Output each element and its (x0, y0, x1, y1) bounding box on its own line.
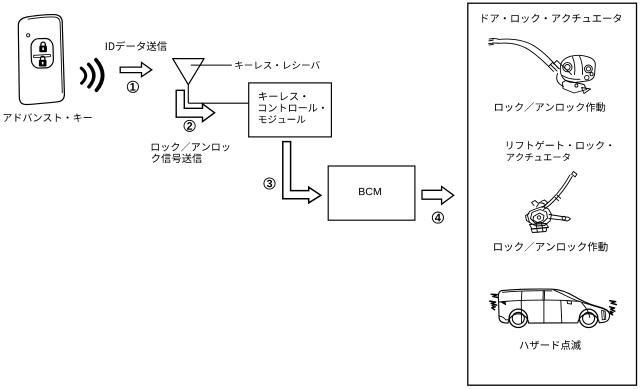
cable end fitting (551, 61, 572, 75)
bottom stacked plates (530, 224, 549, 230)
panel label ドア・ロック・アクチュエータ (482, 14, 621, 23)
mirror (567, 300, 572, 304)
circled number 2 (184, 120, 195, 131)
key fob LED dot (27, 34, 30, 37)
key fob divider slot (33, 54, 50, 57)
circled number 4 (432, 212, 443, 223)
panel label リフトゲート・ロック・ (507, 141, 611, 150)
lower-left spring arm (557, 74, 564, 87)
minivan car body outline (498, 289, 609, 323)
block arrow 2 (lock/unlock signal, L-shaped) (176, 90, 214, 121)
box text コントロール・ line2 (259, 104, 324, 112)
antenna stem wire (187, 85, 189, 104)
wire harness curves (498, 39, 558, 68)
cable end tip (572, 172, 577, 177)
lower plate (563, 81, 587, 94)
front wheel (579, 309, 597, 327)
beltline (499, 300, 579, 302)
small screws cluster (585, 75, 589, 79)
key fob lock button icon (top, filled) (39, 42, 47, 52)
bottom pointed bracket (582, 88, 591, 94)
label アドバンスト・キー (4, 113, 92, 122)
B-pillar (543, 291, 545, 301)
keyless control module box (249, 83, 332, 137)
hazard flash marks rear (490, 294, 499, 310)
output panel border (468, 3, 637, 385)
D-pillar (520, 291, 523, 301)
body right ring (585, 65, 593, 73)
panel label ハザード点滅 (520, 340, 581, 350)
rear bumper line (499, 316, 509, 320)
lever arm to right (549, 215, 571, 222)
front fender top double line (579, 301, 609, 313)
wire antenna to keyless control module (188, 102, 249, 104)
actuator cluster body (528, 207, 552, 227)
key fob button panel (31, 38, 54, 68)
hazard flash marks front (610, 301, 617, 315)
front fender shutline (582, 303, 590, 318)
headlight (602, 310, 606, 320)
cable double curve (544, 177, 573, 210)
sliding door front edge (561, 301, 562, 324)
cable mid fitting (555, 195, 561, 201)
A-pillar inner line (554, 290, 579, 301)
advanced key fob body (18, 15, 64, 105)
label キーレス・レシーバ (235, 61, 320, 69)
block arrow 3 (module to BCM, L-shaped) (283, 142, 321, 203)
frayed wire ends (489, 38, 499, 45)
door lock actuator drawing (489, 38, 596, 93)
rear lamp mark (500, 302, 505, 305)
box text モジュール line3 (259, 115, 306, 123)
keyless receiver antenna triangle (173, 59, 204, 85)
circled number 3 (264, 178, 275, 189)
label IDデータ送信 (106, 41, 167, 51)
BCM box (328, 166, 415, 220)
actuator main body (560, 55, 595, 82)
panel label アクチュエータ (507, 153, 570, 161)
block arrow 4 (BCM to actuators) (422, 187, 454, 205)
circled number 1 (127, 81, 138, 92)
body left ring (563, 63, 572, 72)
roof double line (503, 291, 553, 293)
door gap lines (521, 300, 544, 323)
panel label ロック／アンロック作動 lower (494, 242, 607, 252)
internal lever lines (573, 56, 583, 75)
leader line to receiver label (191, 64, 232, 66)
block arrow 1 (ID data transmission) (120, 63, 152, 77)
liftgate lock actuator drawing (526, 172, 578, 233)
label ロック／アンロッ line1 (152, 142, 230, 151)
rear wheel (509, 309, 527, 327)
top small bits (532, 201, 539, 206)
panel label ロック／アンロック作動 upper (495, 102, 605, 111)
transmission signal arcs (81, 60, 102, 90)
box text キーレス・ line1 (259, 92, 306, 101)
key fob unlock button icon (bottom, filled) (39, 56, 47, 66)
label ク信号送信 line2 (152, 153, 202, 163)
label BCM (359, 188, 381, 195)
